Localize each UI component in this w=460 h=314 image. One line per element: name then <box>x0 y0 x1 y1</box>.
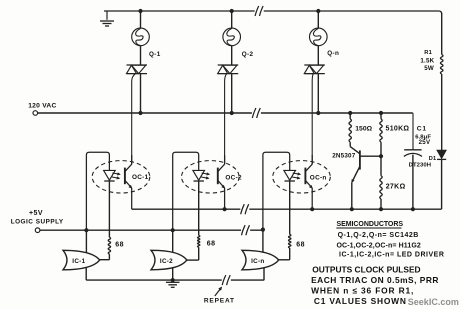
svg-text:SEMICONDUCTORS: SEMICONDUCTORS <box>337 221 404 228</box>
svg-text:IC-n: IC-n <box>251 258 264 265</box>
svg-text:120 VAC: 120 VAC <box>28 103 56 110</box>
svg-text:SeekIC.com: SeekIC.com <box>408 297 459 307</box>
svg-text:68: 68 <box>207 240 216 247</box>
svg-text:1.5K: 1.5K <box>420 57 434 64</box>
svg-text:68: 68 <box>296 242 305 249</box>
svg-text:OUTPUTS CLOCK PULSED: OUTPUTS CLOCK PULSED <box>312 265 420 275</box>
svg-text:IC-2: IC-2 <box>160 258 173 265</box>
svg-text:EACH TRIAC ON 0.5mS, PRR: EACH TRIAC ON 0.5mS, PRR <box>311 275 439 285</box>
svg-text:Q-2: Q-2 <box>242 51 254 58</box>
svg-text:IC-1: IC-1 <box>72 258 85 265</box>
svg-text:150Ω: 150Ω <box>355 126 372 133</box>
svg-text:Q-1,Q-2,Q-n= SC142B: Q-1,Q-2,Q-n= SC142B <box>338 232 419 239</box>
svg-text:Q-1: Q-1 <box>149 51 161 58</box>
svg-text:OC-1: OC-1 <box>132 174 149 181</box>
svg-text:D1: D1 <box>429 156 437 162</box>
svg-text:OC-n: OC-n <box>310 175 327 182</box>
svg-text:DT230H: DT230H <box>409 163 432 169</box>
svg-text:2N5307: 2N5307 <box>332 153 356 160</box>
svg-text:5W: 5W <box>424 65 434 72</box>
svg-text:LOGIC SUPPLY: LOGIC SUPPLY <box>11 218 64 225</box>
svg-text:+5V: +5V <box>29 210 43 217</box>
svg-text:IC-1,IC-2,IC-n= LED DRIVER: IC-1,IC-2,IC-n= LED DRIVER <box>339 251 444 258</box>
svg-text:WHEN n ≤ 36 FOR R1,: WHEN n ≤ 36 FOR R1, <box>311 285 414 295</box>
svg-text:C1 VALUES SHOWN: C1 VALUES SHOWN <box>314 296 407 306</box>
svg-text:OC-1,OC-2,OC-n= H11G2: OC-1,OC-2,OC-n= H11G2 <box>337 243 421 250</box>
svg-text:68: 68 <box>115 241 124 248</box>
svg-text:510KΩ: 510KΩ <box>386 126 410 133</box>
svg-text:REPEAT: REPEAT <box>204 298 235 305</box>
svg-text:R1: R1 <box>424 50 432 56</box>
svg-text:Q-n: Q-n <box>327 50 339 57</box>
svg-text:27KΩ: 27KΩ <box>386 183 406 190</box>
svg-text:25V: 25V <box>419 139 431 146</box>
svg-text:C1: C1 <box>417 126 427 133</box>
